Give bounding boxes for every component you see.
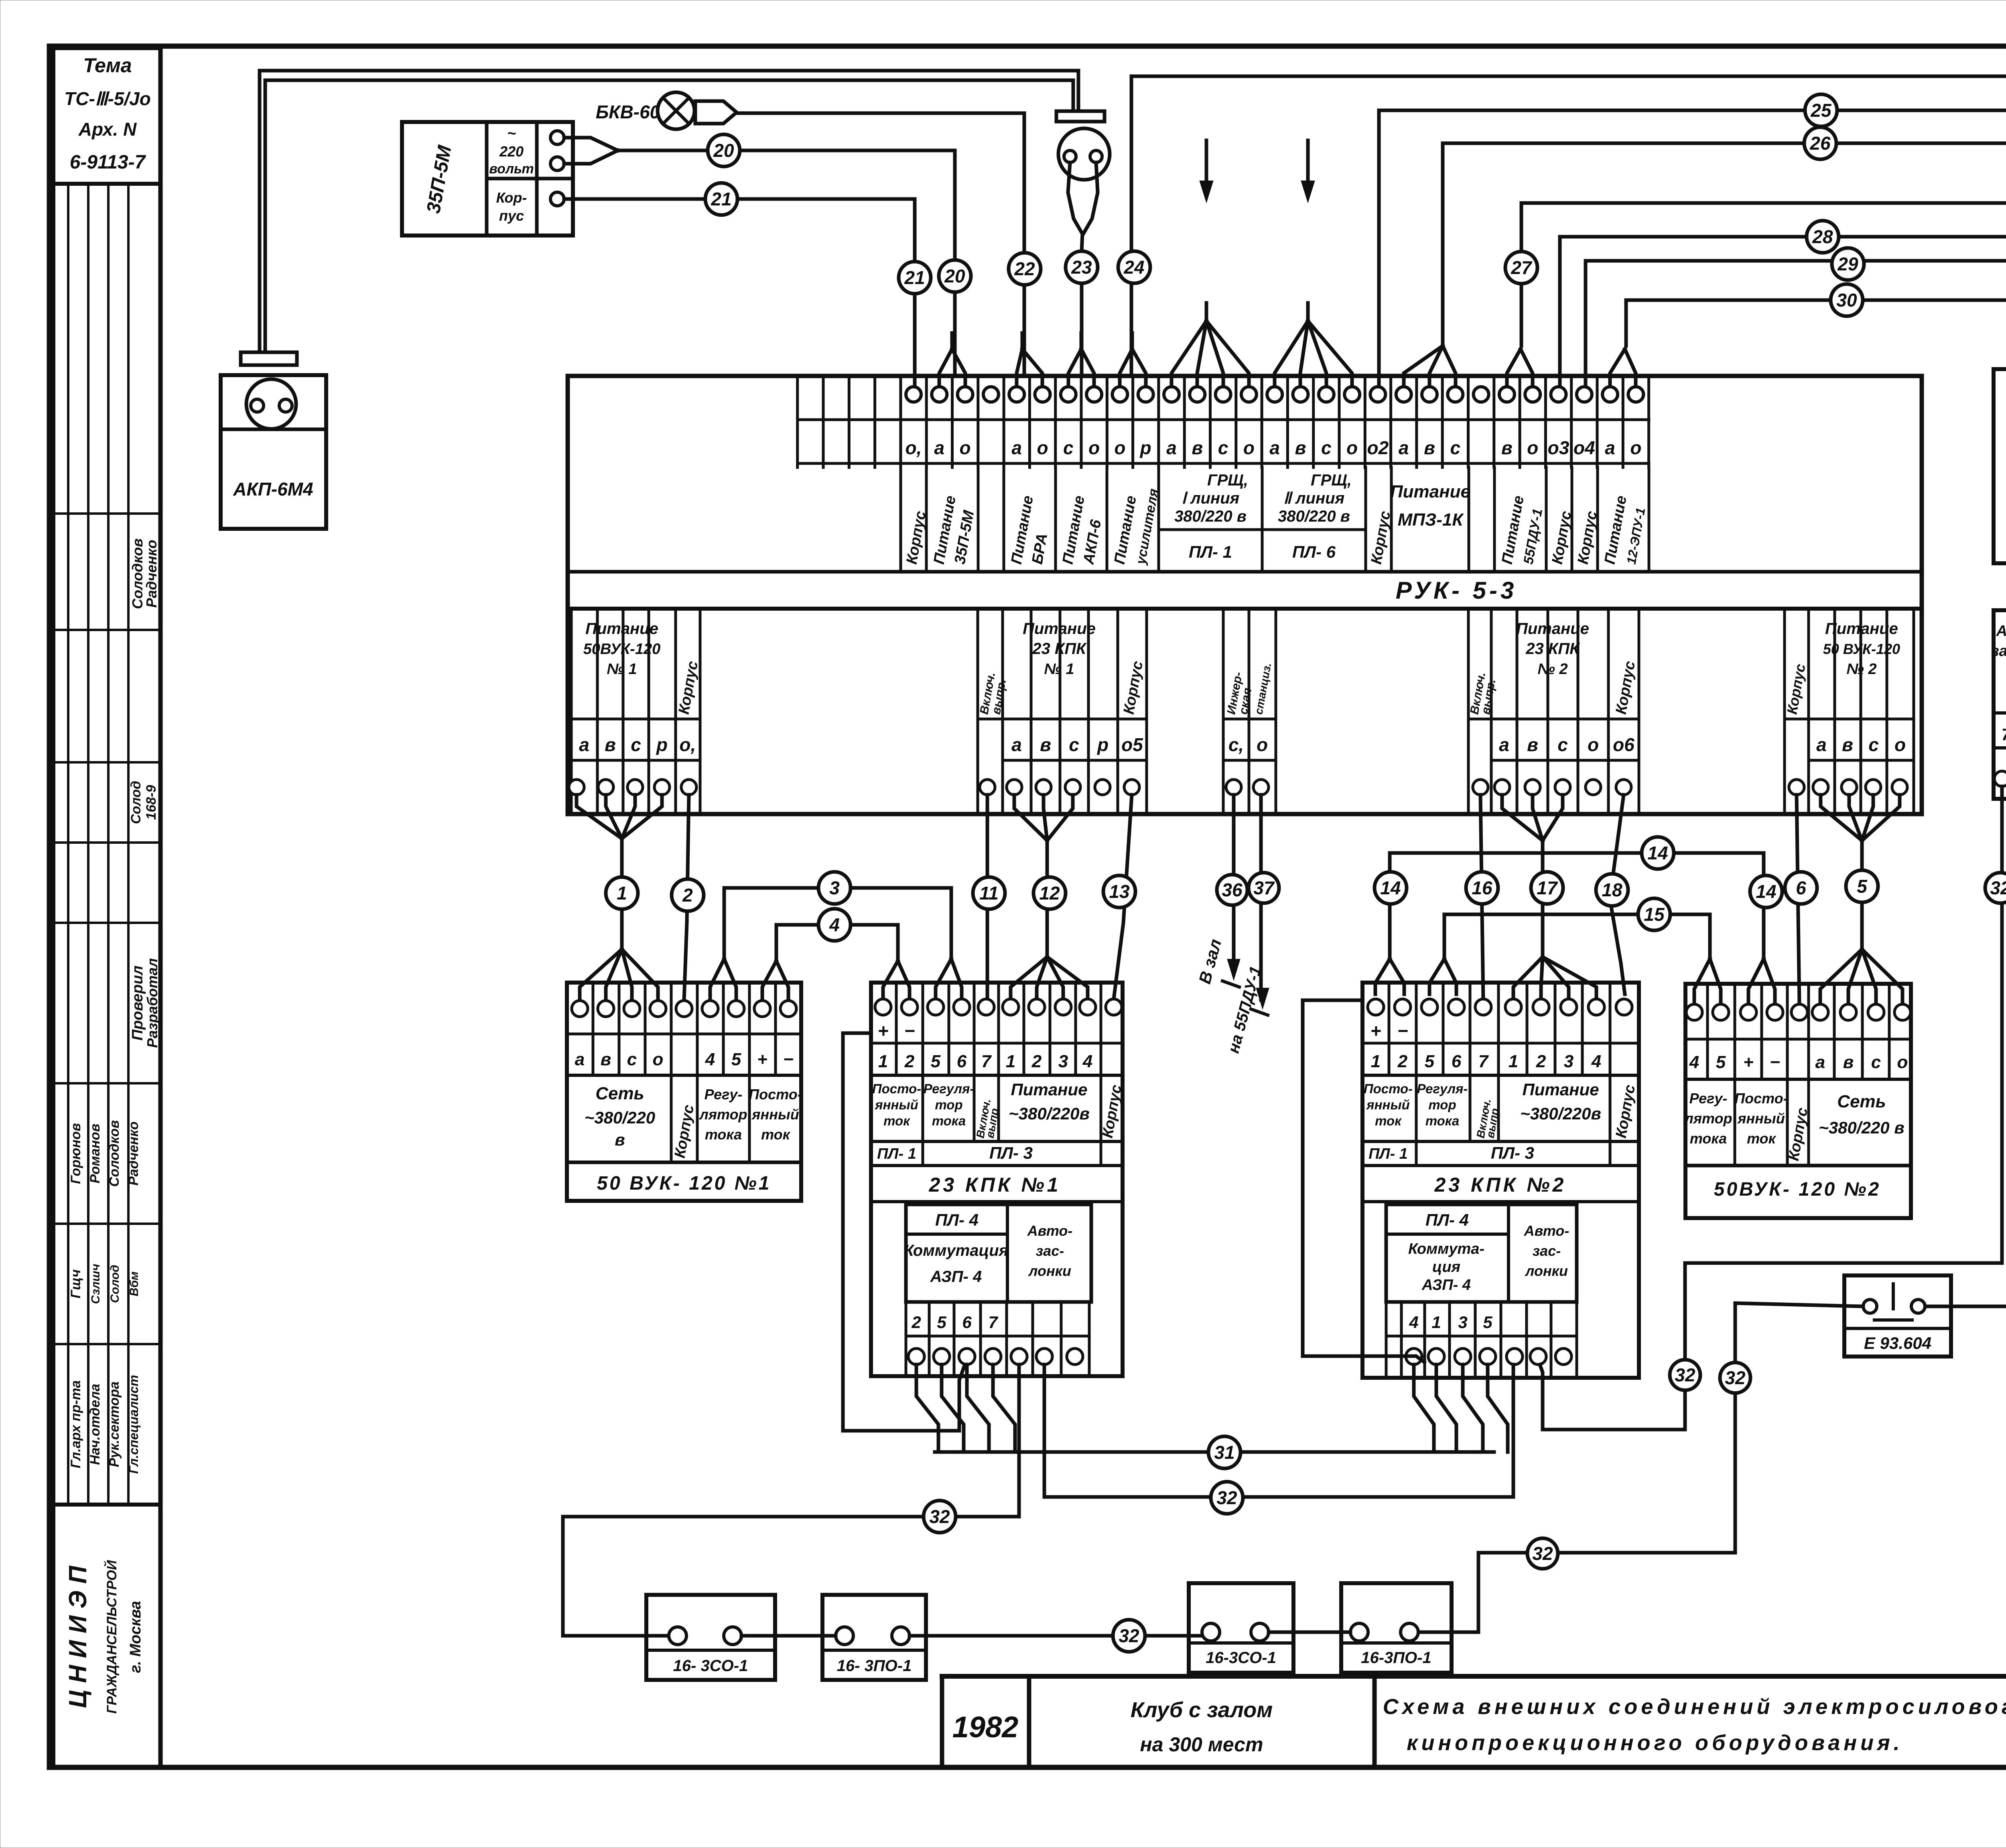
wire from 12-ЭПУ-1 terminal 7 (32) [1685, 786, 2002, 1263]
feeder arrow ГРЩ line 1 [1172, 140, 1249, 388]
svg-text:ПЛ- 4: ПЛ- 4 [1425, 1210, 1469, 1229]
wire number 18 [1596, 874, 1628, 906]
svg-text:2: 2 [904, 1052, 915, 1071]
svg-text:в: в [1527, 734, 1538, 755]
svg-text:о: о [1114, 437, 1125, 458]
wire number 5 [1846, 870, 1878, 902]
bus line на МПЗ-1К (wire 25) [1379, 110, 2006, 388]
svg-text:4: 4 [829, 914, 840, 935]
wire from 12ЭПУ-7 down to 23КПК №2 lower (32) [1540, 1263, 1685, 1430]
svg-text:Солод: Солод [108, 1265, 122, 1303]
svg-text:30: 30 [1836, 290, 1857, 311]
svg-text:тор: тор [935, 1097, 962, 1112]
svg-text:1982: 1982 [952, 1710, 1019, 1744]
wire number 3 [818, 872, 851, 904]
wire number 27 [1505, 252, 1537, 284]
12-ЭПУ-1 lower section labels [1991, 610, 2006, 799]
wire number 17 [1531, 872, 1563, 904]
svg-text:№ 2: № 2 [1846, 661, 1876, 678]
svg-text:21: 21 [711, 189, 731, 209]
svg-text:32: 32 [929, 1506, 950, 1527]
wire АКП-6М4 to plug (pair) [260, 71, 1078, 352]
sidebar stamp column [53, 46, 160, 1767]
svg-text:Авто-: Авто- [1027, 1223, 1073, 1239]
svg-text:АЗП- 4: АЗП- 4 [1421, 1277, 1471, 1294]
wire number 31 [1208, 1436, 1241, 1468]
svg-text:а: а [575, 1050, 585, 1069]
svg-text:с: с [1557, 734, 1568, 755]
svg-text:3: 3 [1564, 1052, 1574, 1071]
svg-text:14: 14 [1380, 877, 1401, 898]
svg-text:в: в [601, 1050, 611, 1069]
svg-text:в: в [1843, 1052, 1854, 1072]
svg-text:Посто-: Посто- [1734, 1090, 1788, 1107]
svg-text:23 КПК №1: 23 КПК №1 [929, 1174, 1061, 1196]
wire 6 (РУК корпус to 50ВУК №2) [1797, 795, 1799, 1004]
svg-text:26: 26 [1809, 133, 1831, 154]
РУК-5-3 bottom group Питание 50ВУК-120 №1 [569, 609, 701, 814]
wire 20 (35П-5М 220в to РУК) [564, 138, 955, 376]
wire 32 between bottom blocks [910, 1634, 1202, 1638]
svg-text:Питание: Питание [1523, 1080, 1599, 1099]
svg-text:Регу-: Регу- [1689, 1090, 1728, 1107]
svg-text:в: в [1424, 437, 1435, 458]
wire number 36 [1217, 875, 1247, 905]
svg-text:с: с [1321, 437, 1332, 458]
wire 15 (23КПК №2 5,6 to 50ВУК №2 4,5) [1429, 914, 1721, 1004]
svg-text:3: 3 [1458, 1313, 1467, 1332]
svg-text:32: 32 [1532, 1543, 1553, 1564]
svg-text:в: в [1192, 437, 1203, 458]
svg-text:1: 1 [1431, 1313, 1441, 1332]
wire 4 (50ВУК №1 +- to 23КПК №1 +-) [762, 925, 910, 1001]
svg-text:ПЛ- 3: ПЛ- 3 [1491, 1143, 1534, 1162]
svg-text:~380/220в: ~380/220в [1520, 1104, 1601, 1123]
bus line на МПВ-1К (wire 26) [1404, 143, 2006, 388]
fork wire 24 into РУК [1120, 333, 1146, 388]
svg-text:лятор: лятор [1683, 1110, 1732, 1127]
bus line wire 29 to 12-ЭПУ-1 П [1586, 261, 2006, 388]
svg-text:кинопроекционного оборудования: кинопроекционного оборудования. [1407, 1731, 1903, 1755]
wire number 12 [1033, 877, 1066, 909]
svg-text:зас-: зас- [1036, 1243, 1064, 1259]
svg-text:4: 4 [705, 1050, 715, 1069]
wire 13 (РУК о5 to 23КПК №1 корпус) [1114, 795, 1132, 999]
wire 18 (РУК о6 to 23КПК №2 корпус) [1611, 795, 1625, 994]
svg-text:1: 1 [1006, 1052, 1015, 1071]
fork wire 23 into РУК [1068, 333, 1094, 388]
РУК-5-3 bottom group Инженерная связь [1223, 609, 1276, 814]
svg-text:а: а [579, 734, 589, 755]
svg-text:2: 2 [1397, 1052, 1408, 1071]
wire number 32 (bottom) [1113, 1620, 1145, 1652]
wire 3 (50ВУК №1 4,5 to 23КПК №1 5,6) [710, 888, 962, 1001]
svg-text:23 КПК: 23 КПК [1032, 640, 1087, 658]
svg-text:4: 4 [1591, 1052, 1601, 1071]
wire number 14 (right) [1750, 875, 1782, 908]
wire 22 (БКВ-60 to РУК) [737, 113, 1024, 376]
svg-text:№ 1: № 1 [1044, 661, 1074, 678]
svg-text:+: + [878, 1020, 889, 1041]
svg-text:~380/220в: ~380/220в [1009, 1104, 1090, 1123]
box 16-3ПО-1 second [1341, 1583, 1452, 1673]
svg-text:32: 32 [1725, 1367, 1746, 1388]
svg-text:−: − [904, 1020, 915, 1041]
svg-text:220: 220 [499, 143, 524, 160]
svg-text:с: с [631, 734, 641, 755]
svg-text:168-9: 168-9 [144, 785, 159, 820]
svg-text:янный: янный [1366, 1097, 1410, 1112]
РУК-5-3 bottom group Питание 23 КПК №2 [1468, 609, 1639, 814]
svg-text:50 ВУК-120: 50 ВУК-120 [1823, 641, 1900, 657]
svg-text:~380/220 в: ~380/220 в [1819, 1118, 1904, 1137]
svg-text:о3: о3 [1548, 437, 1569, 458]
РУК-5-3 МПЗ-1К label [1390, 482, 1470, 530]
wire number 25 [1805, 94, 1837, 126]
svg-text:а: а [1011, 437, 1022, 458]
wire number 6 [1785, 872, 1817, 904]
svg-text:на 300 мест: на 300 мест [1140, 1733, 1263, 1756]
svg-text:32: 32 [1675, 1365, 1695, 1385]
svg-text:о: о [1894, 734, 1906, 755]
svg-text:ПЛ- 6: ПЛ- 6 [1292, 542, 1336, 561]
svg-text:тока: тока [932, 1113, 966, 1128]
box 16-3СО-1 first [646, 1595, 775, 1680]
svg-text:АЗП- 4: АЗП- 4 [930, 1268, 982, 1285]
svg-text:Коммутация: Коммутация [904, 1242, 1009, 1259]
plug symbol [1058, 128, 1110, 251]
svg-text:а: а [1399, 437, 1409, 458]
svg-text:2: 2 [1031, 1052, 1042, 1071]
svg-text:Нач.отдела: Нач.отдела [87, 1384, 103, 1465]
wire number 32 (on Е93 horizontal) [1527, 1538, 1558, 1569]
svg-text:21: 21 [904, 267, 925, 288]
svg-text:20: 20 [713, 140, 734, 161]
svg-text:32: 32 [1990, 877, 2006, 898]
svg-text:а: а [1499, 734, 1509, 755]
wire 24 (amplifier feed) and bus на 50У-155 [1131, 76, 2006, 376]
svg-text:+: + [1370, 1020, 1381, 1041]
svg-text:Авто-: Авто- [1524, 1223, 1569, 1239]
svg-text:14: 14 [1756, 881, 1776, 902]
svg-text:тока: тока [1425, 1113, 1460, 1128]
wire 1 (РУК to 50ВУК-120 №1 network) [577, 795, 662, 1001]
wire number 21 (upper) [705, 183, 737, 215]
svg-text:ПЛ- 1: ПЛ- 1 [1368, 1145, 1408, 1162]
svg-text:а: а [1816, 734, 1827, 755]
svg-text:23: 23 [1071, 257, 1092, 278]
svg-text:14: 14 [1647, 843, 1668, 863]
wire from 12-ЭПУ-1 terminal 8 (32) [1925, 786, 2006, 1306]
lamp БКВ-60 [596, 92, 737, 129]
svg-text:ПЛ- 1: ПЛ- 1 [877, 1145, 916, 1162]
svg-text:−: − [1397, 1020, 1408, 1041]
svg-text:о4: о4 [1574, 437, 1595, 458]
svg-text:380/220 в: 380/220 в [1174, 508, 1247, 525]
socket АКП-6М4 [221, 352, 326, 529]
23 КПК №2 lower terminal row [1386, 1302, 1577, 1378]
svg-text:4: 4 [1409, 1313, 1418, 1332]
svg-text:Питание: Питание [1023, 620, 1096, 638]
svg-text:16- 3ПО-1: 16- 3ПО-1 [837, 1657, 912, 1675]
svg-text:а: а [1815, 1052, 1825, 1072]
svg-text:РУК- 5-3: РУК- 5-3 [1396, 577, 1517, 604]
wire number 32 (on Е93 vertical) [1720, 1363, 1750, 1393]
svg-text:ПЛ- 3: ПЛ- 3 [989, 1143, 1033, 1162]
svg-text:13: 13 [1109, 881, 1130, 902]
svg-text:ГРЩ,: ГРЩ, [1311, 471, 1352, 489]
wire number 13 [1103, 875, 1135, 908]
svg-text:380/220 в: 380/220 в [1278, 508, 1350, 525]
svg-text:6: 6 [1796, 877, 1806, 898]
svg-text:с: с [1063, 437, 1074, 458]
svg-text:Радченко: Радченко [143, 540, 160, 607]
svg-text:5: 5 [1425, 1052, 1435, 1071]
svg-text:вольт: вольт [489, 161, 534, 177]
svg-text:Питание: Питание [585, 620, 658, 638]
wire number 37 [1249, 873, 1279, 903]
23 КПК №2 inner box ПЛ-4 АЗП-4 [1386, 1204, 1577, 1302]
svg-text:ток: ток [1375, 1113, 1402, 1128]
svg-text:Солод: Солод [128, 781, 144, 824]
svg-text:31: 31 [1214, 1442, 1234, 1463]
svg-text:24: 24 [1123, 257, 1144, 278]
svg-text:−: − [783, 1050, 794, 1069]
svg-text:о: о [960, 437, 971, 458]
svg-text:ток: ток [761, 1126, 791, 1143]
wire 5 (РУК to 50ВУК №2 network) [1820, 795, 1902, 1004]
wires 36 37 to hall [1195, 795, 1268, 1055]
svg-text:32: 32 [1119, 1625, 1139, 1646]
svg-text:Сзлшч: Сзлшч [89, 1264, 102, 1304]
svg-text:р: р [1096, 734, 1109, 755]
РУК-5-3 top label cells [901, 467, 1649, 572]
svg-text:+: + [1743, 1052, 1754, 1072]
wire between second pair [1269, 1631, 1350, 1634]
svg-text:в: в [1295, 437, 1306, 458]
wire 21 (35П-5М корпус to РУК) [564, 199, 915, 388]
svg-text:янный: янный [751, 1106, 799, 1123]
svg-text:16: 16 [1472, 877, 1492, 898]
svg-text:о: о [653, 1050, 664, 1069]
svg-text:с: с [1871, 1052, 1881, 1072]
svg-text:6: 6 [957, 1052, 967, 1071]
svg-text:Рук.сектора: Рук.сектора [107, 1381, 122, 1467]
svg-text:1: 1 [617, 883, 627, 904]
svg-text:лонки: лонки [1525, 1263, 1568, 1279]
wire number 14 (middle) [1642, 837, 1674, 869]
svg-text:тока: тока [1690, 1130, 1727, 1147]
svg-text:+: + [757, 1050, 767, 1069]
svg-text:−: − [1770, 1052, 1780, 1072]
wire number 32 (on 4200 vertical) [1670, 1360, 1700, 1390]
svg-text:Питание: Питание [1390, 482, 1470, 502]
svg-text:~380/220: ~380/220 [585, 1108, 655, 1127]
svg-text:50 ВУК- 120 №1: 50 ВУК- 120 №1 [597, 1173, 772, 1194]
svg-text:о: о [1897, 1052, 1908, 1072]
wire 32 (23КПК №1 term5 to 16-3СО-1) [563, 1365, 1019, 1636]
svg-text:с: с [1069, 734, 1079, 755]
wire number 11 [973, 877, 1005, 909]
bus line на 55 ПДУ-1 second (wire 28) [1560, 237, 2006, 388]
svg-text:16-3СО-1: 16-3СО-1 [1206, 1649, 1276, 1667]
svg-text:лятор: лятор [698, 1106, 747, 1123]
terminal block 50 ВУК-120 №1 [567, 983, 802, 1201]
svg-text:17: 17 [1537, 877, 1558, 898]
svg-text:12: 12 [1039, 883, 1060, 904]
terminal block 23 КПК №2 [1362, 983, 1639, 1378]
svg-text:Разработал: Разработал [144, 958, 160, 1048]
svg-text:№ 2: № 2 [1537, 661, 1567, 678]
svg-text:29: 29 [1837, 254, 1858, 274]
svg-text:р: р [656, 734, 668, 755]
svg-text:5: 5 [731, 1050, 741, 1069]
svg-text:Клуб с залом: Клуб с залом [1131, 1698, 1273, 1722]
svg-text:Сеть: Сеть [595, 1084, 644, 1103]
title block [942, 1676, 2006, 1767]
svg-text:ПЛ- 1: ПЛ- 1 [1189, 542, 1232, 561]
wire number 29 [1832, 248, 1864, 280]
svg-text:5: 5 [931, 1052, 941, 1071]
РУК-5-3 top rotated labels [904, 487, 1648, 566]
wire number 32 (middle) [1211, 1482, 1243, 1514]
svg-text:ГРАЖДАНСЕЛЬСТРОЙ: ГРАЖДАНСЕЛЬСТРОЙ [104, 1560, 120, 1714]
svg-text:Гл.арх пр-та: Гл.арх пр-та [68, 1380, 83, 1468]
sidebar org box ЦНИИЭП [53, 1505, 160, 1767]
bus line на 55 ПДУ-1 (wire 27) [1507, 203, 2006, 388]
wire 12 (РУК to 23КПК №1 1,2,3,4) [1011, 795, 1088, 999]
23 КПК №1 inner box ПЛ-4 АЗП-4 [904, 1204, 1091, 1302]
wire number 15 [1638, 898, 1670, 930]
svg-text:а: а [1269, 437, 1280, 458]
svg-text:тор: тор [1428, 1097, 1456, 1112]
svg-text:6-9113-7: 6-9113-7 [70, 152, 146, 173]
wire number 2 [672, 879, 704, 911]
svg-text:Радченко: Радченко [126, 1121, 141, 1186]
svg-text:ток: ток [883, 1113, 911, 1128]
svg-text:23 КПК №2: 23 КПК №2 [1434, 1174, 1567, 1196]
terminal block РУК-5-3 outline [568, 376, 1922, 814]
svg-text:2: 2 [911, 1313, 921, 1332]
svg-text:о: о [1630, 437, 1641, 458]
feeder arrow ГРЩ line 2 [1275, 140, 1352, 388]
svg-text:Романов: Романов [87, 1124, 103, 1184]
wire number 16 [1466, 872, 1498, 904]
svg-text:зас-: зас- [1533, 1243, 1561, 1259]
svg-text:Регуля-: Регуля- [1417, 1081, 1468, 1096]
svg-text:г. Москва: г. Москва [127, 1601, 144, 1673]
svg-text:о: о [1527, 437, 1538, 458]
wire 16 (РУК to 23КПК №2 7) [1480, 795, 1483, 999]
wire number 24 [1118, 251, 1150, 283]
svg-text:25: 25 [1810, 100, 1832, 121]
svg-text:о2: о2 [1367, 437, 1389, 458]
svg-text:2: 2 [682, 885, 693, 906]
terminal block 50 ВУК-120 №2 [1683, 984, 1911, 1218]
svg-text:15: 15 [1644, 904, 1665, 925]
svg-text:а: а [1011, 734, 1022, 755]
РУК-5-3 top terminal circles [906, 387, 1643, 402]
svg-text:~: ~ [507, 125, 516, 142]
svg-text:Питание: Питание [1011, 1080, 1088, 1099]
fork wire 22 into РУК [1017, 333, 1042, 388]
wire number 14 (left) [1375, 872, 1407, 904]
svg-text:Коммута-: Коммута- [1408, 1241, 1484, 1257]
svg-text:а: а [1605, 437, 1615, 458]
svg-text:50ВУК-120: 50ВУК-120 [583, 641, 660, 658]
terminal block 35П-5М [402, 122, 573, 236]
РУК-5-3 ГРЩ line 2 label ПЛ-6 [1262, 471, 1366, 561]
box 16-3СО-1 second [1189, 1583, 1293, 1673]
svg-text:Арх. N: Арх. N [78, 119, 137, 140]
svg-text:Схема внешних соединений элект: Схема внешних соединений электросилового… [1383, 1695, 2006, 1719]
svg-text:27: 27 [1511, 257, 1533, 278]
wire 32 (23КПК №1 term6 to 23КПК №2) [1044, 1365, 1513, 1497]
wire number 20 (lower) [939, 260, 971, 292]
РУК-5-3 ГРЩ line 1 label ПЛ-1 [1159, 471, 1262, 561]
svg-text:Солодков: Солодков [107, 1120, 122, 1187]
svg-text:5: 5 [1857, 876, 1868, 897]
РУК-5-3 bottom group Питание 23 КПК №1 [977, 609, 1147, 814]
svg-text:янный: янный [874, 1097, 918, 1112]
sidebar signatures text [68, 538, 160, 1474]
wire number 32 (left) [924, 1501, 956, 1533]
svg-text:6: 6 [1452, 1052, 1462, 1071]
svg-text:о: о [1588, 734, 1599, 755]
svg-text:Посто-: Посто- [1364, 1081, 1413, 1096]
svg-text:о: о [1088, 437, 1100, 458]
wire number 22 [1009, 253, 1041, 285]
wire 11 (РУК to 23КПК №1 7) [986, 795, 989, 999]
fork wire 20 into РУК [939, 333, 965, 388]
wire 23КПК №1 plus to lower row [843, 1033, 965, 1431]
svg-text:5: 5 [1483, 1313, 1492, 1332]
svg-text:Кор-: Кор- [496, 189, 527, 206]
wire 31 (23КПК №1 lower to 23КПК №2 lower) [916, 1365, 1508, 1452]
svg-text:с: с [1868, 734, 1879, 755]
svg-text:4: 4 [1689, 1052, 1699, 1072]
svg-text:а: а [934, 437, 945, 458]
svg-text:4: 4 [1082, 1052, 1092, 1071]
wire number 28 [1807, 221, 1839, 253]
svg-text:о: о [1257, 734, 1268, 755]
svg-text:р: р [1139, 437, 1151, 458]
svg-text:5: 5 [1716, 1052, 1726, 1072]
svg-text:20: 20 [944, 266, 965, 286]
svg-text:Авто-: Авто- [1996, 623, 2006, 640]
svg-text:БКВ-60: БКВ-60 [596, 102, 660, 122]
svg-text:Гщч: Гщч [68, 1269, 83, 1299]
svg-text:о,: о, [680, 734, 696, 755]
svg-text:50ВУК- 120 №2: 50ВУК- 120 №2 [1714, 1179, 1881, 1200]
wire number 32 (below 12-ЭПУ 7) [1985, 873, 2006, 903]
svg-text:7: 7 [2001, 725, 2006, 744]
РУК-5-3 top terminal cells [798, 376, 1649, 467]
svg-text:Посто-: Посто- [872, 1081, 921, 1096]
wire 2 (РУК корпус to 50ВУК №1) [684, 795, 689, 1001]
23 КПК №1 lower terminal row [906, 1302, 1089, 1376]
svg-text:5: 5 [937, 1313, 946, 1332]
wire 14 (23КПК №2 +- to 50ВУК №2 +-) [1375, 853, 1775, 1004]
svg-text:Вбм: Вбм [128, 1271, 141, 1296]
svg-text:Гл.специалист: Гл.специалист [126, 1375, 141, 1474]
svg-text:Тема: Тема [83, 54, 132, 77]
svg-text:16-3ПО-1: 16-3ПО-1 [1361, 1649, 1431, 1667]
svg-text:в: в [1842, 734, 1853, 755]
svg-text:Регуля-: Регуля- [924, 1081, 975, 1096]
svg-text:№ 1: № 1 [607, 661, 637, 678]
svg-text:Регу-: Регу- [705, 1086, 743, 1103]
